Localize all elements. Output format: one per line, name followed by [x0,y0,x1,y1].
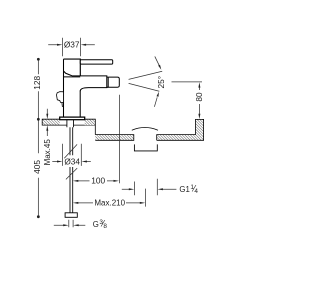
lever handle [80,60,112,64]
spray cone upper line [129,71,163,79]
25deg lower leader arrowhead [157,92,159,97]
bowl arc [132,128,158,131]
80 top extension line [172,81,203,83]
head chamfer [64,71,72,76]
G1 1/4 arrow tails [122,188,177,190]
G3/8 extension ticks [69,220,73,228]
svg-text:100: 100 [91,176,105,186]
threaded shank through deck [67,120,74,128]
base plate [60,117,85,120]
dia34 arrow tails [52,161,91,163]
Max.45 down arrowhead [46,114,48,119]
cartridge head [64,59,81,76]
svg-text:Ø34: Ø34 [64,156,80,166]
spray cone lower line [129,83,160,91]
G1 1/4 left arrowhead [129,188,134,190]
drain pull knob [57,92,64,103]
Max.210 left arrowhead [73,202,78,204]
80 up arrowhead [198,82,200,87]
100 dimension line [77,180,115,182]
80 down arrowhead [198,114,200,119]
100 left arrowhead [73,180,78,182]
dimension graphics [38,38,202,228]
aerator [108,77,119,87]
Max.210 right extension tick [144,189,146,207]
G1 1/4 right arrowhead [158,188,163,190]
svg-text:G11⁄4: G11⁄4 [179,183,198,195]
G3/8 left arrowhead [63,224,68,226]
dot at deck level [37,118,40,121]
dia34 extension ticks [63,144,82,166]
G1 1/4 extension ticks [134,179,157,196]
arrowheads [37,44,200,227]
deck piece right of base [85,119,96,134]
G3/8 arrow tails [54,224,86,226]
lower deck front section [95,135,134,141]
supply hose [70,127,73,213]
svg-text:80: 80 [194,92,204,102]
dia37 extension lines [63,38,81,57]
faucet body column [64,59,81,117]
dia34 right arrowhead [82,161,87,163]
Max.210 right arrowhead [140,202,145,204]
100 right arrowhead [114,180,119,182]
G3/8 right arrowhead [73,224,78,226]
vertical dimension line 128/405 [37,61,39,216]
80 dimension line [198,86,200,115]
svg-text:Max.210: Max.210 [94,199,125,208]
spout tube [72,76,108,88]
bidet rear wall [196,119,204,140]
svg-text:128: 128 [32,75,42,89]
25deg lower leader [154,97,157,107]
Max.45 up arrowhead [46,125,48,130]
hose end nut [65,213,77,218]
svg-text:G3⁄8: G3⁄8 [93,218,108,230]
svg-text:Max.45: Max.45 [43,139,52,166]
dia37 right arrowhead [81,44,86,46]
drain tailpiece G1 1/4 [134,144,157,151]
lower deck rear section [157,135,196,141]
svg-text:Ø37: Ø37 [64,40,80,50]
Max.210 dimension line [77,202,141,204]
svg-text:405: 405 [32,160,42,174]
counter deck left slab [42,119,95,125]
dot at hose end level [37,215,40,218]
spout underside fillet [80,88,88,92]
25deg upper leader arrowhead [158,65,161,70]
Max.45 arrow lines [46,109,48,136]
dia37 left arrowhead [57,44,62,46]
dot at faucet top level [37,58,40,61]
dia37 dimension line [48,44,95,46]
100 right extension line [118,95,120,183]
svg-text:25°: 25° [156,76,166,89]
dia34 left arrowhead [57,161,62,163]
25deg upper leader [155,56,159,65]
dia34 oblique slashes [64,144,77,179]
